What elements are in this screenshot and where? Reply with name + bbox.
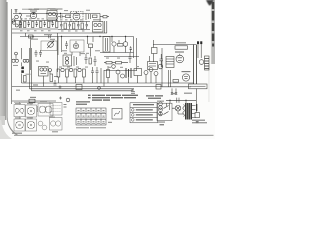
cap C10 xyxy=(52,21,55,28)
speaker tiny text xyxy=(108,122,112,123)
right vertical wire x136 xyxy=(136,38,138,71)
dot grid label xyxy=(64,105,67,108)
verticals to bus xyxy=(58,77,97,83)
output rail xyxy=(162,86,191,88)
V4 side components xyxy=(65,41,68,49)
voice coil circle xyxy=(199,60,204,65)
V1 label xyxy=(29,9,40,11)
cap C22 xyxy=(129,53,132,63)
page gutter edge line xyxy=(7,2,19,136)
mid-left vertical wire xyxy=(25,33,27,37)
small dark mark below box xyxy=(196,121,199,123)
padder cap circle xyxy=(12,21,15,24)
wire row2 bottom xyxy=(58,29,90,31)
on-wire cap pair xyxy=(177,98,179,103)
tube base box 3 xyxy=(38,104,53,117)
T2 drop wires xyxy=(105,21,107,33)
output label box xyxy=(175,46,188,49)
coil box T-osc xyxy=(103,37,110,53)
cap C17 xyxy=(39,50,42,57)
resistor R33 xyxy=(83,69,86,77)
box below bus xyxy=(76,85,82,90)
FM det tube V3 xyxy=(48,42,54,48)
rectifier tube V8 xyxy=(182,74,189,81)
row above bus: resistor R30 xyxy=(57,69,60,77)
hatched box B1 xyxy=(166,57,174,68)
tube base box 4 xyxy=(14,119,25,131)
cap C20 xyxy=(94,56,97,66)
detector circle D1 xyxy=(112,42,116,46)
cluster circles xyxy=(40,68,43,71)
V3 label xyxy=(44,34,52,36)
AC line wire xyxy=(166,88,197,112)
resistor R28 vertical xyxy=(24,76,27,83)
audio cap C24 xyxy=(160,54,164,67)
tube base box 1 xyxy=(14,105,25,117)
pot circle xyxy=(112,65,116,69)
label text mark xyxy=(176,42,186,44)
left tiny label xyxy=(13,64,18,66)
resistor R12 xyxy=(56,22,58,28)
speaker magnet stripes xyxy=(205,56,210,70)
pot P7 xyxy=(149,68,153,72)
row1 top wire xyxy=(14,20,58,22)
IF amp tube V2 12BA6 xyxy=(73,13,80,20)
resistor R5 xyxy=(93,15,98,18)
small box on wire xyxy=(29,99,35,103)
AC plug prong 1 xyxy=(159,106,163,110)
cap C8 xyxy=(36,21,39,28)
screen components xyxy=(86,14,91,21)
vertical wire x30 xyxy=(30,37,32,71)
table1 glyph rows xyxy=(77,112,105,124)
T2 label xyxy=(93,19,101,21)
tube base pin dots xyxy=(16,106,51,128)
mid main wire y36.5 xyxy=(20,36,134,38)
resistor R24 xyxy=(116,62,122,64)
resistor R26 xyxy=(173,80,179,83)
speaker box outline xyxy=(112,109,122,120)
det wires xyxy=(112,37,126,53)
drop cap marks xyxy=(171,93,177,95)
wires cluster xyxy=(44,72,51,87)
resistor R22 xyxy=(118,44,124,47)
main bus rail 2 xyxy=(22,82,194,84)
IF transformer T4 xyxy=(63,55,72,66)
twin electrolytic C35 xyxy=(126,68,131,78)
page gutter left band xyxy=(0,0,7,120)
table1 outline xyxy=(76,108,106,125)
row2 top wire xyxy=(58,21,90,23)
cap C14 xyxy=(86,22,89,30)
cap C16 xyxy=(35,50,38,57)
notes text block 2 xyxy=(146,95,163,99)
primary coil bumps xyxy=(183,105,185,117)
resistor R15 xyxy=(81,23,83,29)
component row 2 xyxy=(58,22,90,30)
resistor R8 xyxy=(24,22,26,28)
grid cap wire xyxy=(26,13,35,16)
converter tube V1 12BE6 xyxy=(30,12,36,18)
pot P1 xyxy=(61,68,64,71)
switch blades xyxy=(164,103,170,114)
notes text block xyxy=(88,95,138,101)
resistor R14 xyxy=(73,23,75,29)
resistor R3 top xyxy=(66,15,71,18)
table2 text xyxy=(133,104,154,121)
resistor R7 xyxy=(19,22,21,28)
right edge vertical text marks xyxy=(212,2,214,47)
table2 outline xyxy=(130,103,158,123)
cap C33 xyxy=(91,67,94,77)
dot grid box xyxy=(50,103,62,116)
cap C12 xyxy=(69,22,72,30)
IF transformer T1 xyxy=(47,11,57,21)
plate resistor R6 xyxy=(103,16,107,18)
cluster box xyxy=(39,67,49,77)
resistor R20 xyxy=(89,58,91,64)
tube base box 2 xyxy=(26,105,37,117)
pot P4 xyxy=(116,70,120,74)
pot P8 xyxy=(154,72,158,76)
caption bottom left xyxy=(12,133,22,134)
oscillator coil L1 xyxy=(20,14,22,20)
resistor R31 xyxy=(66,69,69,77)
small box mid xyxy=(89,44,93,48)
antenna xyxy=(15,10,18,14)
V8 label xyxy=(182,71,191,73)
V4 drop wires xyxy=(58,37,91,57)
right of middle row: resistor R34 xyxy=(107,70,110,78)
vertical wire x57 xyxy=(57,33,59,72)
circle pair B xyxy=(23,59,26,62)
row screw circles xyxy=(132,109,135,112)
junction dots mid wire xyxy=(19,13,126,37)
verticals right row xyxy=(108,66,156,83)
AC wire junction dots xyxy=(169,100,186,101)
plus mark xyxy=(59,86,62,89)
bus drop x132 xyxy=(32,89,133,91)
rectifier bar xyxy=(196,104,197,111)
plus mark 2 xyxy=(59,97,62,100)
resistor R11 xyxy=(48,22,50,28)
tube base labels xyxy=(15,102,55,119)
main bus rail 1 xyxy=(12,86,162,88)
cap C7 xyxy=(28,21,31,28)
electrolytic C30 xyxy=(21,67,24,70)
coil L2 xyxy=(56,14,57,21)
right page edge strip xyxy=(212,0,216,64)
ratio det circle xyxy=(158,64,163,69)
R29 label xyxy=(54,76,58,78)
series box on wire xyxy=(29,35,34,38)
vertical pair wires xyxy=(101,68,104,87)
AVC rail wire xyxy=(12,28,58,30)
faint header text xyxy=(22,8,58,10)
cap C19 xyxy=(85,54,88,64)
V2 shield dashed box xyxy=(71,12,84,22)
cap C34 xyxy=(96,67,99,77)
lower det wire xyxy=(100,52,134,54)
tuning gang capacitor C1 xyxy=(15,15,19,19)
circle pair xyxy=(38,121,43,126)
V3 arrow xyxy=(47,41,54,48)
series cap on wire xyxy=(49,35,50,38)
resistor R10 xyxy=(40,22,42,28)
top B+ rail wire xyxy=(13,13,100,15)
drop cap below bus xyxy=(131,89,135,93)
coupling cap C4 xyxy=(58,15,65,19)
pot P5 xyxy=(121,74,125,78)
detector circle D2 xyxy=(123,42,128,47)
ratio det box xyxy=(148,62,158,70)
main bus rail 3 xyxy=(30,88,135,90)
cap C11 xyxy=(60,22,63,30)
wires detector row xyxy=(104,62,128,64)
PSU caption text xyxy=(157,93,207,126)
cluster inner mark xyxy=(41,73,47,75)
lower rail wire xyxy=(12,32,107,34)
resistor R9 xyxy=(32,22,34,28)
lower det wire2 xyxy=(104,56,139,58)
long wire to output stage xyxy=(153,44,196,46)
electrolytic C31 xyxy=(21,70,24,73)
table1 cell marks xyxy=(78,110,105,122)
row under V5: resistor R23 xyxy=(106,62,112,64)
label AF1 xyxy=(56,8,63,10)
output stage verticals xyxy=(169,70,171,87)
tube base box 6 xyxy=(50,118,63,131)
wire into ratio det xyxy=(149,56,151,62)
box T5 xyxy=(134,69,142,76)
cap C13 xyxy=(77,22,80,30)
small pot below xyxy=(66,98,70,102)
pot P6 xyxy=(144,71,148,75)
T1 label xyxy=(48,8,56,10)
mid wire corner drop xyxy=(133,37,135,59)
junction circle on line xyxy=(98,87,101,90)
rail y70.5 xyxy=(104,70,137,72)
det hang cap xyxy=(130,46,133,52)
pot P2 xyxy=(69,68,72,71)
top-right dog-ear mark xyxy=(206,0,214,6)
heater labels xyxy=(16,84,38,98)
tuning indicator box xyxy=(41,41,57,51)
speaker squiggle xyxy=(115,111,120,116)
IF transformer T2 xyxy=(93,22,104,33)
AC plug prong 2 xyxy=(159,112,163,116)
components right of T4 xyxy=(74,56,77,66)
caption marks below xyxy=(52,131,58,133)
tube V4 box xyxy=(70,40,84,52)
tuning gang capacitor C2 xyxy=(12,19,15,22)
dial lamp assembly xyxy=(159,102,163,115)
cap C9 xyxy=(44,21,47,28)
interlock box xyxy=(157,103,172,120)
table1 caption xyxy=(76,127,106,128)
page bottom shadow edge xyxy=(14,135,214,136)
phono motor symbol xyxy=(175,105,181,111)
small box right below bus xyxy=(156,85,161,90)
V7 label xyxy=(175,51,184,53)
output trans label box xyxy=(189,84,208,89)
small box x152 xyxy=(152,48,158,54)
resistor R32 xyxy=(74,69,77,77)
resistor R29 xyxy=(50,74,53,82)
motor wires xyxy=(172,108,183,114)
value label texture top rows xyxy=(20,18,85,31)
junction component dark xyxy=(197,41,199,44)
cap C32 xyxy=(54,80,57,85)
parallel vertical wires xyxy=(22,48,32,91)
filter box xyxy=(195,113,200,118)
connecting wires bottom left xyxy=(14,102,50,119)
component row 1 caps and resistors xyxy=(19,21,58,28)
tube base box 5 xyxy=(26,119,37,131)
tube V4 xyxy=(73,43,78,48)
output frame left wire xyxy=(161,48,163,87)
power transformer core xyxy=(185,103,192,120)
mid cluster marks xyxy=(88,37,94,45)
trimmer small circle xyxy=(15,52,18,55)
schematic left border wire xyxy=(11,9,13,104)
faint right page line xyxy=(208,64,211,102)
trimmer cap circle xyxy=(15,24,18,27)
top rail corner drop wire xyxy=(99,14,101,23)
pot P3 xyxy=(78,68,81,71)
twin vertical wires xyxy=(194,45,197,85)
value label texture mid band xyxy=(30,10,150,68)
heater drops xyxy=(172,88,176,92)
elec label xyxy=(26,73,31,75)
table1 header text xyxy=(76,101,90,105)
resistor R13 xyxy=(64,23,66,29)
bottom-left rounded corner shade xyxy=(0,120,12,139)
wire bottom left xyxy=(12,100,56,102)
circle pair A xyxy=(12,59,15,62)
secondary taps xyxy=(192,106,196,118)
output tube V7 xyxy=(176,55,184,63)
cap C6 xyxy=(20,21,23,28)
